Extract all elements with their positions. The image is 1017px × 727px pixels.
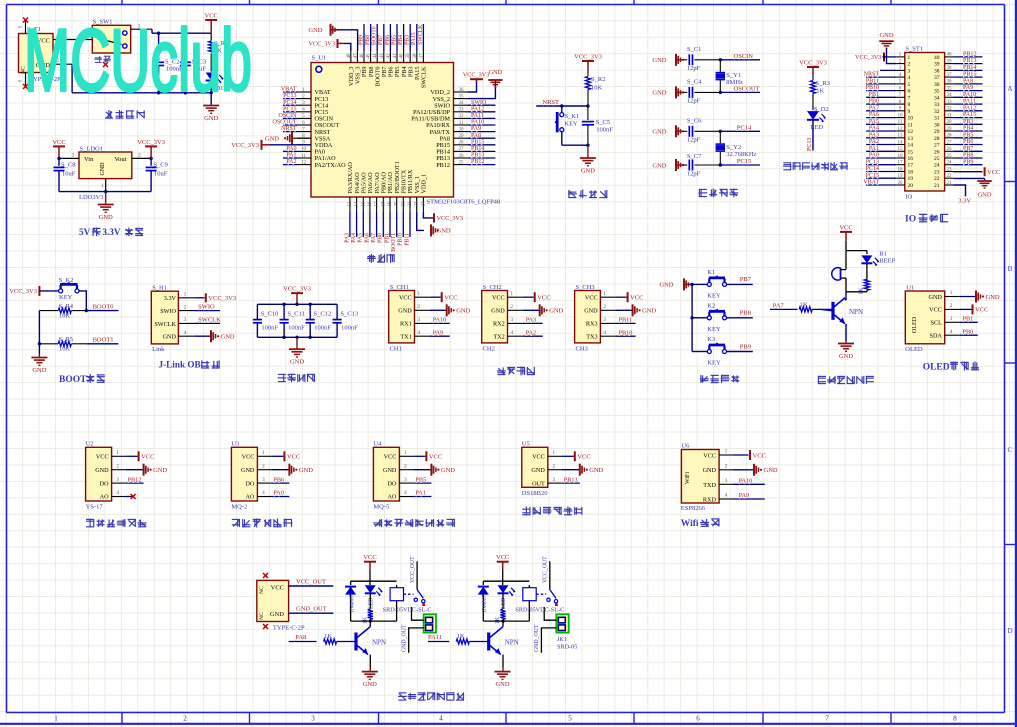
U1 pin47 VSS_3 to GND — [308, 24, 357, 52]
U6 pin2 GND — [719, 464, 778, 476]
svg-text:CH2: CH2 — [483, 345, 495, 352]
switch pin2 no-ERC mark — [103, 62, 108, 67]
net PA8 base resistor 1K — [289, 633, 356, 644]
svg-text:12pF: 12pF — [687, 137, 701, 144]
svg-text:10K: 10K — [59, 313, 71, 320]
OLED pin1 GND — [945, 290, 1000, 302]
svg-text:YS-17: YS-17 — [86, 504, 104, 511]
svg-text:1K: 1K — [363, 616, 369, 624]
svg-text:VCC_3V3: VCC_3V3 — [309, 41, 335, 48]
net BOOT0 wire — [86, 303, 118, 310]
relay transistor NPN — [489, 627, 519, 668]
svg-text:GND: GND — [308, 27, 322, 34]
svg-text:S_C1: S_C1 — [687, 46, 701, 53]
svg-text:30: 30 — [934, 122, 940, 128]
svg-text:CH1: CH1 — [390, 345, 402, 352]
svg-text:S_C4: S_C4 — [687, 79, 702, 86]
U4 pin1 VCC — [399, 450, 442, 461]
svg-text:DO: DO — [100, 480, 109, 487]
svg-text:35: 35 — [947, 86, 953, 91]
svg-text:31: 31 — [947, 113, 953, 118]
svg-text:VCC_3V3: VCC_3V3 — [9, 288, 37, 295]
svg-text:2: 2 — [262, 463, 265, 469]
svg-text:31: 31 — [459, 121, 465, 126]
svg-text:Link: Link — [152, 346, 165, 353]
U5 pin2 GND — [548, 463, 604, 475]
svg-text:28: 28 — [459, 141, 465, 146]
svg-text:VCC: VCC — [96, 454, 109, 461]
svg-text:RX3: RX3 — [586, 321, 598, 328]
svg-text:6: 6 — [908, 89, 911, 95]
svg-text:21: 21 — [947, 181, 953, 186]
title relay control circuit — [398, 692, 464, 700]
svg-text:S_H1: S_H1 — [152, 285, 167, 292]
svg-text:10: 10 — [898, 113, 904, 118]
S_CH2 pin4 net PA2 — [508, 329, 543, 336]
svg-text:11: 11 — [908, 122, 914, 128]
svg-text:21: 21 — [401, 201, 406, 207]
header S_CH3 body — [575, 284, 601, 353]
svg-text:S_C7: S_C7 — [687, 153, 702, 160]
svg-text:VCC_3V3: VCC_3V3 — [137, 139, 165, 146]
svg-text:2: 2 — [116, 463, 119, 469]
svg-text:38: 38 — [413, 53, 418, 59]
svg-text:JK1: JK1 — [557, 636, 567, 643]
svg-text:18: 18 — [381, 201, 386, 207]
header S_CH2 body — [482, 284, 508, 353]
svg-text:VCC_3V3: VCC_3V3 — [799, 60, 827, 67]
svg-text:1: 1 — [184, 292, 187, 298]
svg-text:34: 34 — [947, 93, 953, 98]
connector wires with GND_OUT — [534, 607, 556, 653]
svg-text:29: 29 — [947, 127, 953, 132]
S_ST1 pin22 GND — [953, 178, 992, 198]
buzzer B1 BEEP — [832, 268, 846, 292]
svg-text:32: 32 — [934, 109, 940, 115]
svg-text:4: 4 — [184, 330, 187, 336]
svg-text:S_K2: S_K2 — [59, 277, 74, 284]
svg-text:23: 23 — [947, 167, 953, 172]
svg-text:27: 27 — [459, 147, 465, 152]
svg-text:GND: GND — [456, 308, 470, 315]
svg-text:IO: IO — [905, 214, 916, 224]
svg-text:4: 4 — [262, 490, 265, 496]
svg-text:14: 14 — [908, 143, 914, 149]
S_CH3 pin4 net PB10 — [600, 329, 635, 336]
svg-text:2: 2 — [417, 304, 420, 310]
svg-text:1: 1 — [116, 450, 119, 456]
resistor S_R4 10K — [39, 303, 86, 320]
crystal row OSCIN with capacitor S_C1 12pF — [652, 46, 760, 72]
key K2 — [692, 302, 726, 333]
svg-text:U6: U6 — [681, 442, 690, 449]
svg-text:39: 39 — [406, 53, 411, 59]
key S_K2 — [39, 277, 79, 301]
svg-text:34: 34 — [934, 95, 940, 101]
title reset circuit — [568, 190, 607, 199]
svg-text:22: 22 — [947, 174, 953, 179]
svg-text:S_C8: S_C8 — [61, 162, 75, 169]
module U2 body — [86, 440, 112, 510]
svg-text:39: 39 — [947, 59, 953, 64]
svg-text:VCC: VCC — [537, 295, 550, 302]
relay coil — [523, 585, 536, 621]
svg-text:Vout: Vout — [114, 156, 126, 163]
svg-text:4: 4 — [404, 490, 407, 496]
svg-text:VCC_3V3: VCC_3V3 — [855, 54, 881, 61]
display U1 OLED body — [905, 284, 944, 353]
U6 pin4 PA9 — [719, 492, 765, 499]
alarm transistor Q NPN — [833, 297, 863, 341]
title alarm circuit — [818, 376, 874, 384]
svg-text:1K: 1K — [495, 616, 501, 624]
ground GND of alarm — [838, 344, 854, 361]
svg-text:7: 7 — [825, 715, 829, 723]
green terminal connector — [424, 614, 436, 632]
module U3 body — [231, 440, 257, 510]
LED S_LED1 — [206, 73, 224, 105]
svg-text:U3: U3 — [231, 440, 239, 447]
ground GND of LDO — [98, 205, 114, 222]
U1 top pins 37-48 — [347, 24, 425, 63]
net PA7 wire with 1K base resistor — [770, 302, 833, 312]
svg-text:12: 12 — [898, 127, 904, 132]
svg-text:STM32F103C8T6_LQFP48: STM32F103C8T6_LQFP48 — [427, 199, 501, 206]
svg-text:ESP8266: ESP8266 — [681, 505, 706, 512]
svg-text:U2: U2 — [86, 440, 94, 447]
svg-text:8: 8 — [908, 102, 911, 108]
svg-text:30: 30 — [947, 120, 953, 125]
capacitor S_C8 — [54, 158, 76, 191]
svg-text:1: 1 — [552, 450, 555, 456]
svg-text:NC: NC — [259, 586, 265, 594]
svg-text:S_CH3: S_CH3 — [576, 284, 595, 291]
svg-text:48: 48 — [347, 53, 352, 59]
svg-text:13: 13 — [908, 136, 914, 142]
capacitor S_C3 10uF — [180, 32, 206, 93]
svg-text:47: 47 — [353, 53, 358, 59]
svg-text:PA7: PA7 — [371, 233, 377, 243]
svg-text:Wifi: Wifi — [681, 519, 699, 529]
svg-text:S_R3: S_R3 — [816, 80, 830, 87]
S_ST1 pin3 stub wire — [880, 69, 896, 71]
relay connector JK1 labels — [557, 636, 577, 651]
svg-text:26: 26 — [934, 149, 940, 155]
svg-text:100nF: 100nF — [314, 325, 331, 332]
svg-text:PB13: PB13 — [471, 153, 484, 159]
svg-text:S_R2: S_R2 — [591, 76, 605, 83]
svg-text:3: 3 — [510, 317, 513, 323]
U1 pin names inside body — [315, 66, 451, 194]
svg-text:GND: GND — [659, 282, 673, 289]
svg-text:GND: GND — [441, 467, 455, 474]
svg-text:WiFi: WiFi — [685, 472, 691, 484]
svg-text:29: 29 — [934, 129, 940, 135]
svg-text:U4: U4 — [373, 440, 382, 447]
svg-text:PB12: PB12 — [436, 162, 450, 169]
svg-text:GND: GND — [153, 467, 167, 474]
svg-text:GND: GND — [100, 162, 106, 176]
svg-text:LED: LED — [369, 598, 375, 609]
capacitor S_C9 — [146, 158, 168, 191]
U1 right pins 25-36 — [454, 88, 496, 166]
svg-text:GND: GND — [652, 90, 666, 97]
svg-text:12pF: 12pF — [687, 98, 701, 105]
VCC power at relay driver — [496, 554, 509, 570]
svg-text:11: 11 — [898, 120, 903, 125]
connector TYPE-C-2P output — [257, 573, 305, 632]
svg-text:GND: GND — [383, 467, 397, 474]
svg-text:37: 37 — [934, 75, 940, 81]
svg-text:33: 33 — [947, 100, 953, 105]
relay transistor NPN — [356, 627, 386, 668]
svg-text:S_R4: S_R4 — [59, 303, 74, 310]
title of U4 — [373, 519, 455, 527]
svg-text:LDO3V3: LDO3V3 — [79, 194, 104, 201]
svg-text:VCC: VCC — [242, 454, 255, 461]
power bottom rail wire — [72, 91, 213, 94]
svg-text:38: 38 — [934, 68, 940, 74]
svg-text:24: 24 — [934, 163, 940, 169]
svg-text:16: 16 — [908, 156, 914, 162]
svg-text:29: 29 — [459, 134, 465, 139]
svg-text:3.3V: 3.3V — [164, 295, 177, 302]
svg-text:43: 43 — [380, 53, 385, 59]
svg-text:GND: GND — [489, 69, 503, 76]
crystal row PC15 with capacitor S_C7 12pF — [652, 153, 760, 178]
svg-text:GND: GND — [584, 308, 598, 315]
svg-text:PB13: PB13 — [564, 476, 578, 483]
relay bottom rail to transistor — [483, 620, 529, 627]
svg-text:GND: GND — [398, 308, 412, 315]
net label NRST wire — [536, 99, 588, 108]
svg-text:2: 2 — [404, 463, 407, 469]
svg-text:PB10: PB10 — [398, 233, 404, 246]
title crystal circuit — [699, 189, 739, 198]
U1 pin23 VSS_1 to GND — [417, 211, 451, 236]
svg-text:35: 35 — [934, 89, 940, 95]
svg-text:OSCOUT: OSCOUT — [734, 85, 760, 92]
svg-text:A: A — [1007, 84, 1013, 93]
svg-text:39: 39 — [934, 62, 940, 68]
keys GND symbol — [659, 278, 692, 290]
svg-text:11: 11 — [301, 154, 306, 159]
svg-text:NPN: NPN — [849, 308, 863, 316]
connector wires with GND_OUT — [402, 607, 424, 653]
ground GND of power circuit — [203, 106, 219, 123]
VCC_3V3 power at run LED — [799, 60, 827, 76]
svg-text:S_ST1: S_ST1 — [905, 46, 923, 53]
svg-text:PB12: PB12 — [128, 476, 142, 483]
crystal S_Y2 32.768KHz — [716, 131, 757, 165]
svg-text:TXD: TXD — [703, 482, 716, 489]
svg-text:VCC: VCC — [703, 453, 716, 460]
svg-text:5V: 5V — [79, 227, 91, 237]
svg-text:10: 10 — [301, 147, 307, 152]
S_CH1 pin2 GND — [415, 304, 471, 316]
svg-text:AO: AO — [387, 494, 396, 501]
svg-text:TYPE-C-2P: TYPE-C-2P — [273, 625, 305, 632]
svg-text:PB13: PB13 — [963, 58, 976, 64]
title IO expansion port — [905, 214, 948, 225]
svg-text:25: 25 — [947, 154, 953, 159]
title J-Link OB port — [159, 360, 220, 370]
svg-text:7: 7 — [908, 95, 911, 101]
svg-text:27: 27 — [947, 140, 953, 145]
svg-text:45: 45 — [367, 53, 372, 59]
svg-text:GND: GND — [95, 467, 109, 474]
VCC power symbol at LDO — [52, 139, 65, 159]
U2 pin4 — [112, 490, 136, 499]
relay part number text — [515, 607, 564, 614]
svg-text:100nF: 100nF — [261, 325, 278, 332]
svg-text:PB15: PB15 — [471, 139, 484, 145]
U3 pin1 VCC — [257, 450, 300, 461]
svg-text:GND: GND — [642, 308, 656, 315]
svg-text:GND_OUT: GND_OUT — [402, 624, 408, 652]
svg-text:PB14: PB14 — [963, 65, 976, 71]
svg-text:25: 25 — [934, 156, 940, 162]
S_H1 pin1 to VCC_3V3 — [178, 292, 236, 303]
svg-text:VCC: VCC — [585, 294, 598, 301]
svg-text:PB3: PB3 — [405, 35, 411, 45]
svg-text:S_Y1: S_Y1 — [726, 72, 741, 79]
svg-text:DO: DO — [245, 480, 254, 487]
svg-text:3: 3 — [950, 316, 953, 322]
svg-text:21: 21 — [934, 183, 940, 189]
S_H1 pin4 GND — [178, 330, 234, 342]
svg-text:NC: NC — [259, 612, 265, 620]
svg-text:VCC: VCC — [987, 169, 1000, 176]
svg-text:PA3: PA3 — [344, 233, 350, 243]
LDO pin2 wire — [132, 153, 153, 161]
svg-text:SDA: SDA — [930, 333, 943, 340]
title Wifi module — [681, 519, 720, 529]
svg-text:10K: 10K — [591, 85, 603, 92]
LDO gnd pin wire — [101, 179, 106, 192]
net BOOT1 wire — [86, 336, 118, 343]
svg-text:17: 17 — [908, 163, 914, 169]
S_ST1 pin23 VCC — [953, 167, 1000, 176]
svg-text:2: 2 — [183, 715, 187, 723]
svg-text:10uF: 10uF — [154, 171, 168, 178]
svg-text:GND: GND — [986, 294, 1000, 301]
wire T1 pin2 — [53, 58, 72, 93]
svg-text:TX3: TX3 — [586, 333, 597, 340]
alarm bottom node wire — [846, 292, 867, 297]
svg-text:BOOT: BOOT — [59, 375, 87, 385]
svg-text:20: 20 — [898, 181, 904, 186]
capacitor S_C2 100nF — [153, 32, 183, 93]
svg-text:S_C11: S_C11 — [287, 310, 304, 317]
svg-text:S_C6: S_C6 — [687, 118, 702, 125]
svg-text:14: 14 — [898, 140, 904, 145]
svg-text:PB11: PB11 — [619, 317, 633, 324]
title of U2 — [86, 519, 147, 528]
svg-text:PA10: PA10 — [739, 478, 753, 485]
svg-text:PB5: PB5 — [391, 35, 397, 45]
svg-text:46: 46 — [360, 53, 365, 59]
svg-text:24: 24 — [947, 161, 953, 166]
svg-text:SWIO: SWIO — [198, 304, 215, 311]
svg-text:GND: GND — [652, 57, 666, 64]
net GND_OUT wire — [289, 606, 334, 614]
svg-text:PB14: PB14 — [471, 146, 484, 152]
LED S_D2 — [807, 106, 829, 131]
svg-text:VCC: VCC — [287, 454, 300, 461]
svg-text:18: 18 — [908, 170, 914, 176]
svg-text:19: 19 — [898, 174, 904, 179]
svg-text:GND: GND — [437, 228, 451, 235]
capacitor S_C11 100nF — [280, 304, 306, 337]
svg-text:DO: DO — [387, 480, 396, 487]
svg-text:GND: GND — [241, 467, 255, 474]
svg-text:PA6: PA6 — [364, 233, 370, 243]
LDO bottom rail — [59, 190, 151, 204]
svg-text:VCC_3V3: VCC_3V3 — [208, 295, 236, 302]
alarm LED — [861, 251, 895, 281]
svg-text:GND: GND — [589, 467, 603, 474]
ground GND of BOOT — [31, 358, 47, 375]
svg-text:NPN: NPN — [505, 639, 519, 647]
VCC power at relay driver — [363, 554, 376, 570]
title power circuit — [105, 110, 145, 119]
svg-text:CH3: CH3 — [576, 345, 588, 352]
svg-text:SWCLK: SWCLK — [421, 66, 428, 88]
U3 pin2 GND — [257, 463, 313, 475]
svg-text:16: 16 — [368, 201, 373, 207]
svg-text:PA2/TX/AO: PA2/TX/AO — [315, 162, 347, 169]
VCC power symbol — [205, 13, 218, 34]
header S_ST1 body — [905, 46, 945, 201]
svg-text:28: 28 — [947, 134, 953, 139]
svg-text:VCC: VCC — [141, 454, 154, 461]
svg-text:S_CH2: S_CH2 — [483, 284, 502, 291]
svg-text:3: 3 — [72, 153, 75, 159]
svg-text:GND: GND — [652, 129, 666, 136]
svg-text:38: 38 — [947, 66, 953, 71]
svg-text:OLED: OLED — [905, 346, 923, 353]
svg-text:10K: 10K — [59, 346, 71, 353]
relay contact switch — [536, 590, 558, 606]
svg-text:1K: 1K — [859, 287, 865, 295]
resistor S_R2 10K — [585, 71, 605, 106]
svg-text:2: 2 — [510, 304, 513, 310]
svg-text:2: 2 — [138, 153, 141, 159]
svg-text:41: 41 — [393, 53, 398, 59]
title serial port circuit — [497, 367, 535, 376]
relay LED resistor 1K — [363, 609, 373, 624]
svg-text:S_D2: S_D2 — [814, 106, 829, 113]
svg-text:BOOT1: BOOT1 — [391, 233, 397, 252]
MCU U1 STM32F103C8T6 body — [311, 55, 500, 206]
U5 pin3 PB13 — [548, 476, 580, 483]
ground GND of filter — [289, 349, 305, 366]
header S_H1 body — [151, 285, 178, 354]
svg-text:31: 31 — [934, 116, 940, 122]
svg-text:5: 5 — [908, 82, 911, 88]
svg-text:12: 12 — [908, 129, 914, 135]
S_CH2 pin1 VCC — [508, 291, 551, 302]
module U5 body — [522, 440, 548, 497]
LDO pin3 wire — [57, 153, 79, 161]
svg-text:1: 1 — [725, 449, 728, 455]
svg-text:SRD-05VDC-SL-C: SRD-05VDC-SL-C — [383, 607, 432, 614]
title keys circuit — [700, 375, 739, 383]
svg-text:VCC: VCC — [384, 454, 397, 461]
svg-text:4: 4 — [417, 330, 420, 336]
svg-text:C: C — [1007, 445, 1012, 454]
